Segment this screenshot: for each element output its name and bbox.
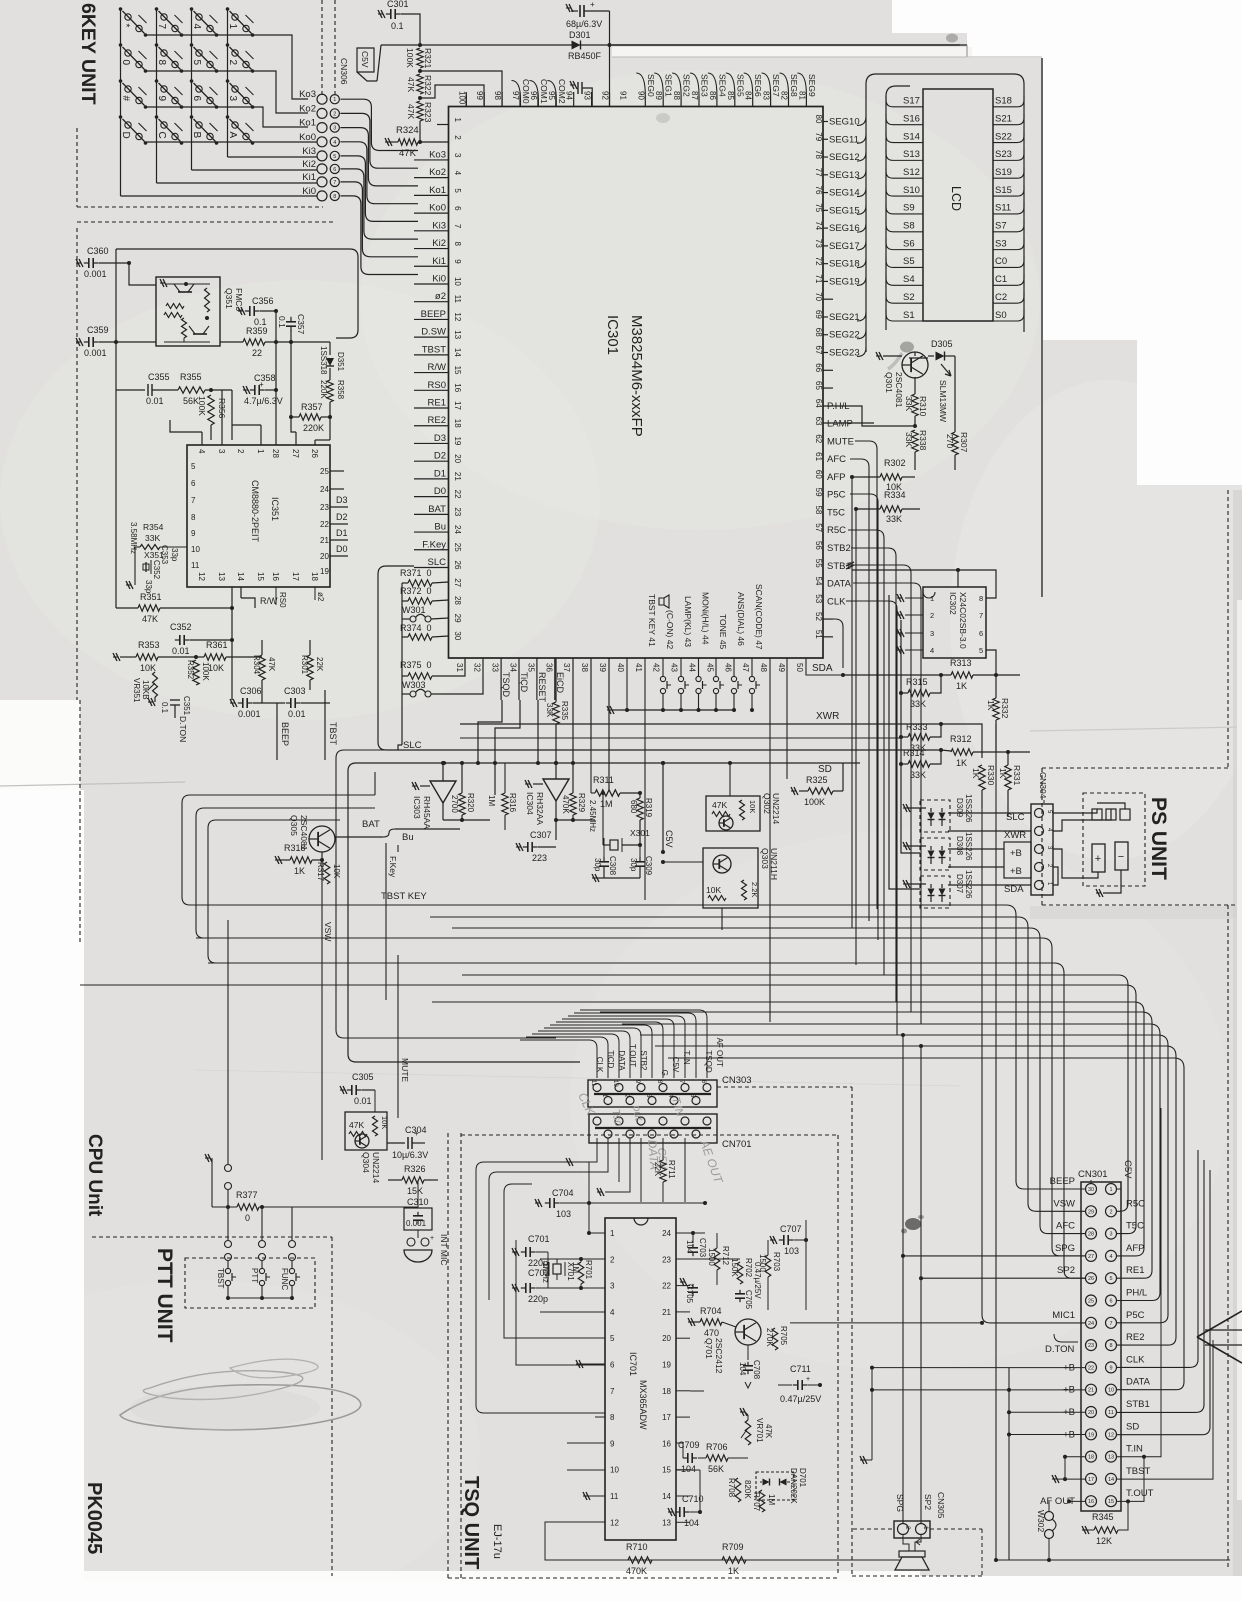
PS unit dashed boundary xyxy=(1227,490,1229,768)
wire xyxy=(562,1019,674,1078)
svg-text:C701: C701 xyxy=(528,1234,550,1244)
svg-text:S22: S22 xyxy=(995,131,1012,142)
wire SLC bus xyxy=(398,749,941,751)
wire C5V to top rail xyxy=(377,45,381,81)
svg-text:2: 2 xyxy=(227,60,238,66)
svg-text:C360: C360 xyxy=(87,246,109,256)
CN301 pin 13 xyxy=(1106,1451,1117,1462)
resistor R702 150K xyxy=(737,1262,743,1284)
CN301 pin 5 xyxy=(1106,1273,1117,1284)
svg-text:18: 18 xyxy=(662,1387,671,1396)
resistor R310 33K xyxy=(914,377,916,394)
svg-text:23: 23 xyxy=(1088,1343,1094,1349)
svg-text:R316: R316 xyxy=(508,793,517,813)
svg-text:820K: 820K xyxy=(743,1480,752,1499)
wire SD row xyxy=(1117,1170,1211,1435)
CN303 pin 5 xyxy=(692,1097,700,1105)
svg-text:SEG15: SEG15 xyxy=(829,205,860,216)
IC701 right pin stubs xyxy=(676,1285,690,1287)
resistor R324 47K xyxy=(419,121,421,142)
svg-text:SEG19: SEG19 xyxy=(829,276,860,287)
svg-text:T.OUT: T.OUT xyxy=(628,1044,637,1067)
svg-text:24: 24 xyxy=(662,1229,671,1238)
svg-text:R711: R711 xyxy=(667,1160,676,1179)
wire xyxy=(430,917,1086,1211)
svg-text:27: 27 xyxy=(453,578,462,587)
wire xyxy=(80,985,1136,1234)
svg-text:Ko0: Ko0 xyxy=(299,132,316,143)
+B bus wires xyxy=(872,1367,1086,1369)
svg-text:TSQ UNIT: TSQ UNIT xyxy=(460,1476,482,1569)
svg-text:S17: S17 xyxy=(903,96,920,107)
wire xyxy=(538,1031,630,1078)
svg-text:22: 22 xyxy=(453,490,462,499)
svg-text:22K: 22K xyxy=(315,657,324,672)
svg-text:57: 57 xyxy=(814,523,823,532)
CN701 pin top 5 xyxy=(703,1117,711,1125)
IC351 right pin stubs xyxy=(330,470,344,472)
wire supply to IC302 xyxy=(868,569,958,571)
wire R322 junction to pin 99 xyxy=(420,85,484,107)
wire C5V to C704 xyxy=(589,1202,705,1204)
svg-text:+: + xyxy=(590,0,595,9)
svg-text:8: 8 xyxy=(1109,1343,1112,1349)
svg-text:VSW: VSW xyxy=(1053,1198,1075,1209)
svg-text:18: 18 xyxy=(1088,1455,1094,1461)
svg-text:7: 7 xyxy=(610,1387,615,1396)
svg-text:19: 19 xyxy=(453,436,462,445)
svg-text:R371 0: R371 0 xyxy=(400,568,432,578)
wire xyxy=(526,1037,608,1078)
svg-text:D305: D305 xyxy=(931,339,953,349)
svg-text:22: 22 xyxy=(320,520,329,529)
svg-text:LCD: LCD xyxy=(949,186,963,211)
svg-text:4: 4 xyxy=(191,24,202,30)
svg-text:DATA: DATA xyxy=(827,579,852,590)
svg-text:AFC: AFC xyxy=(1056,1221,1075,1232)
svg-text:SLM13MW: SLM13MW xyxy=(938,380,948,422)
tact switch xyxy=(698,658,700,676)
svg-text:30p: 30p xyxy=(629,858,638,872)
svg-text:73: 73 xyxy=(814,239,823,248)
svg-text:42: 42 xyxy=(652,663,661,672)
svg-text:R709: R709 xyxy=(722,1542,744,1552)
svg-text:D.SW: D.SW xyxy=(421,327,446,338)
svg-text:R317: R317 xyxy=(316,862,325,882)
wire top net xyxy=(116,248,350,250)
svg-text:18: 18 xyxy=(453,419,462,428)
svg-text:100K: 100K xyxy=(197,396,207,416)
svg-text:T5C: T5C xyxy=(827,507,845,518)
svg-text:RB450F: RB450F xyxy=(568,51,602,61)
ground PTT xyxy=(205,1154,212,1162)
svg-text:4: 4 xyxy=(453,171,462,176)
svg-text:22: 22 xyxy=(1088,1365,1094,1371)
svg-text:1K: 1K xyxy=(728,1566,739,1576)
svg-text:17: 17 xyxy=(662,1413,671,1422)
svg-text:47K: 47K xyxy=(267,657,276,672)
svg-text:67: 67 xyxy=(814,346,823,355)
svg-text:56K: 56K xyxy=(708,1464,724,1474)
inverter IC303 RH45AA xyxy=(430,781,456,803)
svg-text:SEG5: SEG5 xyxy=(735,74,745,97)
svg-text:Q701: Q701 xyxy=(704,1338,714,1359)
wire xyxy=(622,1024,1160,1301)
CN301 pin 15 xyxy=(1106,1496,1117,1507)
svg-text:0.47µ/25V: 0.47µ/25V xyxy=(780,1394,821,1404)
svg-text:33K: 33K xyxy=(545,703,554,718)
CN301 pin 29 xyxy=(1086,1206,1097,1217)
battery box dashed xyxy=(1083,793,1145,886)
svg-text:53: 53 xyxy=(814,594,823,603)
svg-text:R708: R708 xyxy=(727,1478,736,1498)
speaker xyxy=(903,1535,909,1551)
svg-text:RH32AA: RH32AA xyxy=(535,792,545,825)
svg-text:9: 9 xyxy=(156,96,167,102)
svg-text:C358: C358 xyxy=(254,373,276,383)
wire pin64 PH/L to R310 xyxy=(823,406,915,426)
key switch 7 xyxy=(155,7,159,11)
svg-text:22: 22 xyxy=(662,1282,671,1291)
svg-text:VR351: VR351 xyxy=(132,678,141,703)
svg-text:SEG1: SEG1 xyxy=(664,74,674,97)
svg-text:47K: 47K xyxy=(406,104,416,119)
svg-text:SDA: SDA xyxy=(1004,884,1024,895)
svg-text:S0: S0 xyxy=(995,310,1007,321)
svg-text:0.001: 0.001 xyxy=(84,269,107,279)
svg-text:1K: 1K xyxy=(956,758,967,768)
svg-text:0.001: 0.001 xyxy=(406,1219,427,1228)
svg-text:26: 26 xyxy=(453,561,462,570)
key matrix row wires xyxy=(146,35,309,99)
CN303 pin 1 xyxy=(604,1097,612,1105)
svg-text:47K: 47K xyxy=(399,148,417,159)
svg-text:PK0045: PK0045 xyxy=(83,1482,105,1554)
svg-text:7: 7 xyxy=(191,496,196,505)
svg-text:CN301: CN301 xyxy=(1078,1169,1108,1180)
svg-text:17: 17 xyxy=(1088,1477,1094,1483)
svg-text:5: 5 xyxy=(191,60,202,66)
IC302 pin 8 wire xyxy=(958,570,996,598)
wire xyxy=(668,1058,1184,1390)
svg-text:6: 6 xyxy=(191,479,196,488)
svg-text:P5C: P5C xyxy=(1126,1310,1145,1321)
svg-text:TiCD: TiCD xyxy=(606,1050,615,1068)
wire R324 to pin 2 xyxy=(420,141,449,143)
svg-text:F.Key: F.Key xyxy=(422,539,446,550)
svg-text:20: 20 xyxy=(453,454,462,463)
svg-text:+: + xyxy=(259,380,264,389)
svg-text:SD: SD xyxy=(818,764,832,775)
svg-text:C5V: C5V xyxy=(1122,1160,1133,1179)
svg-text:STB2: STB2 xyxy=(827,543,851,554)
svg-text:6: 6 xyxy=(979,629,983,638)
svg-text:3: 3 xyxy=(1109,1232,1112,1238)
svg-text:SEG18: SEG18 xyxy=(829,259,860,270)
svg-text:0.1: 0.1 xyxy=(391,21,404,31)
svg-text:R/W: R/W xyxy=(428,362,447,373)
svg-text:S1: S1 xyxy=(903,310,915,321)
svg-text:R326: R326 xyxy=(404,1164,426,1174)
svg-text:SCAN(CODE) 47: SCAN(CODE) 47 xyxy=(754,584,764,650)
svg-text:SEG0: SEG0 xyxy=(646,74,656,97)
svg-text:10K: 10K xyxy=(706,885,721,895)
svg-text:R313: R313 xyxy=(950,658,972,668)
wire pin60 AFP to R302 xyxy=(852,476,862,478)
svg-text:CPU Unit: CPU Unit xyxy=(84,1134,105,1217)
svg-text:C709: C709 xyxy=(678,1440,700,1450)
svg-text:75: 75 xyxy=(814,203,823,212)
svg-text:41: 41 xyxy=(634,663,643,672)
svg-text:R702: R702 xyxy=(744,1258,753,1278)
svg-text:12: 12 xyxy=(610,1518,619,1527)
svg-text:SEG23: SEG23 xyxy=(829,348,860,359)
diode pack D307 1SS226 xyxy=(920,876,950,908)
bus line mid xyxy=(348,763,860,1062)
key switch 0 xyxy=(119,43,123,47)
svg-text:31: 31 xyxy=(455,663,464,672)
svg-text:8: 8 xyxy=(610,1413,615,1422)
svg-text:DATA: DATA xyxy=(1126,1377,1151,1388)
node AF OUT xyxy=(1069,1500,1086,1502)
key matrix input wires to CN306 xyxy=(121,195,318,197)
svg-text:BEEP: BEEP xyxy=(421,309,446,320)
svg-text:R325: R325 xyxy=(806,775,828,785)
key switch 6 xyxy=(190,79,194,83)
svg-text:68: 68 xyxy=(814,328,823,337)
vertical bus wires xyxy=(889,595,920,889)
CN301 pin 23 xyxy=(1086,1340,1097,1351)
svg-text:Ki0: Ki0 xyxy=(302,186,316,197)
svg-text:32: 32 xyxy=(473,663,482,672)
svg-text:C305: C305 xyxy=(352,1072,374,1082)
svg-text:D301: D301 xyxy=(569,30,591,40)
svg-text:R353: R353 xyxy=(138,640,160,650)
svg-text:SEG2: SEG2 xyxy=(682,74,692,97)
svg-text:100: 100 xyxy=(457,91,466,105)
COM2 label xyxy=(547,81,556,107)
svg-text:W301: W301 xyxy=(402,605,426,615)
svg-text:C356: C356 xyxy=(252,296,274,306)
ink splotch stain xyxy=(905,1218,921,1230)
svg-text:2: 2 xyxy=(930,611,934,620)
CN306 pin 1 Ko3 xyxy=(317,94,327,104)
resistor R711 22K xyxy=(662,1138,664,1160)
wire D301 junction down to pin 92 xyxy=(609,11,611,107)
op IC301 M38254M6-xxxFP body xyxy=(449,107,824,659)
svg-text:11: 11 xyxy=(1108,1410,1114,1416)
capacitor C705 xyxy=(680,1278,687,1286)
resistor R701 1M xyxy=(578,1262,584,1284)
wire xyxy=(550,1025,652,1078)
CN301 pin 2 xyxy=(1106,1206,1117,1217)
svg-text:33K: 33K xyxy=(904,396,914,411)
svg-text:C2: C2 xyxy=(995,292,1007,303)
svg-text:99: 99 xyxy=(475,91,484,100)
svg-text:CM8880-2PEIT: CM8880-2PEIT xyxy=(250,480,260,543)
svg-text:93: 93 xyxy=(583,91,592,100)
wire xyxy=(544,1028,641,1078)
svg-text:11: 11 xyxy=(590,1080,596,1087)
svg-text:B: B xyxy=(191,132,202,139)
PTT switch dashed box xyxy=(185,1258,315,1308)
resistor R356 100K xyxy=(208,395,214,425)
svg-text:9: 9 xyxy=(1109,1365,1112,1371)
svg-text:S23: S23 xyxy=(995,149,1012,160)
svg-text:AFC: AFC xyxy=(827,454,846,465)
wire PTT common xyxy=(228,1297,292,1299)
svg-text:R351: R351 xyxy=(140,592,162,602)
svg-text:D.TON: D.TON xyxy=(178,716,188,742)
svg-text:C359: C359 xyxy=(87,325,109,335)
svg-text:S11: S11 xyxy=(995,203,1011,214)
resistor R317 10K xyxy=(324,862,330,884)
svg-text:R372 0: R372 0 xyxy=(400,586,432,596)
svg-text:0.01: 0.01 xyxy=(288,709,306,719)
INT MIC xyxy=(407,1238,415,1246)
wire trunk from SEG flags to LCD xyxy=(866,74,1024,352)
svg-text:27: 27 xyxy=(291,449,300,458)
svg-text:22K: 22K xyxy=(653,1162,662,1177)
svg-text:P5C: P5C xyxy=(827,490,846,501)
svg-text:DAN202K: DAN202K xyxy=(789,1468,798,1504)
svg-text:1500: 1500 xyxy=(758,1254,767,1272)
svg-text:2: 2 xyxy=(610,1255,615,1264)
CN701 pin bottom 3 xyxy=(670,1130,678,1138)
svg-text:10: 10 xyxy=(191,545,200,554)
svg-text:3: 3 xyxy=(217,449,226,454)
wire D305 to R307 xyxy=(954,356,956,432)
CN303 pin 2 xyxy=(626,1097,634,1105)
svg-text:8: 8 xyxy=(453,242,462,247)
svg-text:Q304: Q304 xyxy=(361,1152,371,1173)
svg-text:+B: +B xyxy=(1010,866,1022,877)
resistor R708 820K xyxy=(735,1478,741,1502)
svg-text:1SS226: 1SS226 xyxy=(964,832,973,861)
pot VR701 47K xyxy=(745,1420,751,1445)
svg-text:C0: C0 xyxy=(995,256,1007,267)
svg-text:33p: 33p xyxy=(170,548,179,562)
svg-text:68µ/6.3V: 68µ/6.3V xyxy=(566,19,602,29)
svg-text:G: G xyxy=(660,1070,669,1076)
wires right pins to bus xyxy=(823,422,874,424)
svg-text:3: 3 xyxy=(453,153,462,158)
svg-text:SDA: SDA xyxy=(812,663,833,674)
svg-text:R318: R318 xyxy=(284,843,306,853)
svg-text:14: 14 xyxy=(662,1492,671,1501)
svg-text:40: 40 xyxy=(616,663,625,672)
svg-text:C355: C355 xyxy=(148,372,170,382)
svg-text:R5C: R5C xyxy=(827,525,846,536)
svg-text:98: 98 xyxy=(493,91,502,100)
svg-text:47: 47 xyxy=(741,663,750,672)
svg-text:S16: S16 xyxy=(903,113,920,124)
resistor R707 1M xyxy=(759,1490,765,1512)
svg-text:MX365ADW: MX365ADW xyxy=(638,1380,648,1430)
svg-text:29: 29 xyxy=(1088,1209,1094,1215)
svg-text:TBST: TBST xyxy=(422,344,446,355)
svg-text:4: 4 xyxy=(333,140,336,146)
CN301 pin 22 xyxy=(1086,1362,1097,1373)
CN301 pin 4 xyxy=(1106,1250,1117,1261)
svg-text:ANS(DIAL) 46: ANS(DIAL) 46 xyxy=(736,592,746,646)
svg-text:6KEY UNIT: 6KEY UNIT xyxy=(77,3,99,105)
svg-text:5: 5 xyxy=(191,462,196,471)
CN304 pin 5 SLC xyxy=(1035,809,1044,818)
svg-text:7: 7 xyxy=(453,224,462,229)
svg-text:2: 2 xyxy=(333,111,336,117)
resistor R322 47K xyxy=(417,74,423,94)
svg-text:COM0: COM0 xyxy=(521,79,531,104)
svg-text:2.45MHz: 2.45MHz xyxy=(588,800,597,832)
svg-text:21: 21 xyxy=(1088,1388,1094,1394)
svg-text:CLK: CLK xyxy=(595,1057,604,1073)
wire bottom CN301 xyxy=(996,1559,1230,1561)
svg-text:R710: R710 xyxy=(626,1542,648,1552)
svg-text:SEG7: SEG7 xyxy=(771,74,781,97)
svg-text:72: 72 xyxy=(814,257,823,266)
svg-text:1: 1 xyxy=(453,118,462,123)
arrow connector to next sheet xyxy=(1197,1311,1242,1337)
CN301 pin 8 xyxy=(1106,1340,1117,1351)
SEG0-SEG9 labels top xyxy=(644,95,646,107)
svg-text:S9: S9 xyxy=(903,203,915,214)
svg-text:S3: S3 xyxy=(995,238,1007,249)
svg-text:13: 13 xyxy=(217,572,226,581)
svg-text:15K: 15K xyxy=(407,1186,423,1196)
svg-text:70: 70 xyxy=(814,292,823,301)
svg-text:17: 17 xyxy=(453,401,462,410)
svg-text:34: 34 xyxy=(509,663,518,672)
svg-text:2: 2 xyxy=(236,449,245,454)
CN306 pin 7 Ki1 xyxy=(317,177,327,187)
svg-text:Ko3: Ko3 xyxy=(299,89,316,100)
svg-text:R706: R706 xyxy=(706,1442,728,1452)
switch TBST xyxy=(227,1207,229,1240)
svg-text:10: 10 xyxy=(610,1466,619,1475)
svg-text:C306: C306 xyxy=(240,686,262,696)
svg-text:27: 27 xyxy=(1088,1254,1094,1260)
svg-text:C351: C351 xyxy=(182,696,191,716)
svg-text:103: 103 xyxy=(784,1246,799,1256)
svg-text:SEG12: SEG12 xyxy=(829,152,860,163)
svg-text:C357: C357 xyxy=(296,314,306,335)
COM1 label xyxy=(529,81,538,107)
svg-text:CN701: CN701 xyxy=(722,1139,752,1150)
svg-text:Ki1: Ki1 xyxy=(302,172,316,183)
resistor R331 1K xyxy=(1007,752,1009,765)
svg-text:1: 1 xyxy=(930,594,934,603)
svg-text:T.IN: T.IN xyxy=(682,1050,691,1064)
op IC351 CM8880-2PEIT body xyxy=(187,445,330,587)
svg-text:6: 6 xyxy=(333,167,336,173)
svg-text:ø2: ø2 xyxy=(316,592,325,602)
svg-text:(C-ON) 42: (C-ON) 42 xyxy=(665,610,675,649)
CN301 pin 17 xyxy=(1086,1473,1097,1484)
svg-text:16: 16 xyxy=(662,1439,671,1448)
CN304 pin 1 SDA xyxy=(1035,881,1044,890)
svg-text:TBST KEY 41: TBST KEY 41 xyxy=(647,594,657,647)
svg-text:11: 11 xyxy=(191,561,200,570)
svg-text:56: 56 xyxy=(814,541,823,550)
svg-text:47K: 47K xyxy=(406,77,416,92)
svg-text:IC351: IC351 xyxy=(270,497,280,521)
wire R321 junction to pin 98 xyxy=(420,71,502,107)
wire bus rounded frames upper xyxy=(374,772,376,795)
svg-text:R307: R307 xyxy=(959,432,969,453)
CN701 pin top 1 xyxy=(615,1117,623,1125)
svg-text:PH/L: PH/L xyxy=(1126,1288,1147,1299)
